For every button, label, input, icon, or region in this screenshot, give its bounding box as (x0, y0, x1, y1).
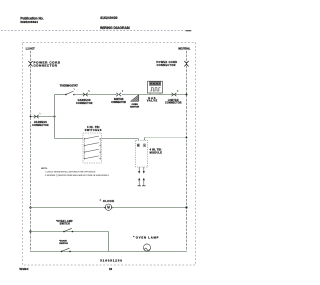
svg-text:NEUTRAL: NEUTRAL (178, 48, 190, 51)
connector ignitor harness (83, 90, 90, 96)
svg-text:CONNECTOR: CONNECTOR (157, 64, 176, 67)
electrode base left (138, 185, 141, 187)
electrode arrow up left (138, 178, 140, 181)
electrode arrow up right (143, 178, 145, 181)
cut line (1, 30, 185, 32)
wire L1 bus (30, 51, 32, 252)
svg-text:316051230: 316051230 (100, 259, 123, 263)
node clock line left (29, 206, 31, 208)
gas valve (148, 81, 163, 94)
svg-text:IGNITOR: IGNITOR (114, 99, 124, 101)
wire spark output right (143, 167, 145, 171)
svg-text:2. ASTERISK (*) DENOTES ITEMS: 2. ASTERISK (*) DENOTES ITEMS WHICH ARE … (45, 174, 110, 177)
tbi switch 2 (84, 143, 101, 146)
wire (122, 94, 187, 96)
cut line dark segment (186, 30, 192, 32)
connector power cord left (28, 61, 32, 66)
svg-text:CONNECTOR: CONNECTOR (111, 102, 126, 104)
switch door (61, 248, 71, 252)
pin mark harness connector (39, 113, 42, 114)
tbi switch box (83, 133, 102, 163)
node harness branch at bus (30, 116, 32, 118)
wire to switch box (55, 138, 84, 140)
ignitor (glowbar) (131, 95, 139, 102)
switch thermostat (65, 88, 75, 95)
svg-text:CONNECTOR: CONNECTOR (165, 103, 182, 105)
electrode stem right (143, 180, 145, 186)
svg-text:SWITCH: SWITCH (59, 243, 68, 245)
svg-text:*: * (133, 235, 134, 239)
wire lamp switch line (30, 231, 109, 233)
electrode stem left (138, 180, 140, 186)
connector power cord right (184, 61, 188, 66)
svg-text:IGNITOR: IGNITOR (130, 106, 139, 108)
label gas valve (147, 97, 158, 103)
svg-text:HARNESS: HARNESS (34, 121, 47, 124)
node clock line right (185, 206, 187, 208)
svg-text:316249400: 316249400 (100, 16, 117, 20)
svg-text:NOTE:: NOTE: (41, 168, 48, 170)
label oven ignitor (130, 104, 139, 108)
wire oven line (55, 94, 67, 96)
tbi switch 3 (84, 149, 101, 152)
wire switch left bus (84, 139, 86, 159)
connector harness (left bus) (34, 115, 39, 119)
label power cord connector left (34, 60, 61, 67)
connector ignitor right (172, 90, 179, 96)
diagram border frame (23, 43, 196, 266)
tbi module U1 (136, 140, 148, 167)
svg-text:VALVE: VALVE (147, 100, 158, 103)
spark arrow down right (143, 171, 145, 174)
node oven line to neutral (186, 94, 188, 96)
wire switch right bus (99, 139, 101, 159)
svg-text:WM94: WM94 (19, 267, 28, 271)
tbi switch 4 (84, 156, 101, 159)
svg-text:*: * (100, 199, 101, 203)
clock motor (104, 204, 112, 210)
wire clock line left (30, 207, 105, 209)
svg-text:SWITCH: SWITCH (60, 224, 70, 226)
wire (74, 94, 117, 96)
label ignitor connector (111, 99, 126, 104)
svg-text:CLOCK: CLOCK (103, 199, 115, 203)
wire bottom line (30, 251, 187, 253)
label harness connector left (32, 121, 49, 127)
svg-text:THERMOSTAT: THERMOSTAT (60, 84, 78, 88)
label harness connector mid (76, 99, 93, 105)
electrode base right (142, 185, 145, 187)
svg-text:CONNECTOR: CONNECTOR (76, 103, 93, 105)
wire spark output left (138, 167, 140, 171)
node module neutral junction (186, 137, 188, 139)
svg-text:CONNECTOR: CONNECTOR (32, 125, 49, 127)
label oven lamp switch (56, 220, 73, 226)
tbi switch 1 (84, 136, 101, 139)
label tbi module (150, 149, 163, 155)
wire module to neutral (dotted) (144, 138, 146, 141)
svg-text:HARNESS: HARNESS (78, 99, 91, 102)
svg-text:L1 HOT: L1 HOT (26, 47, 35, 50)
label power cord connector right (156, 61, 177, 67)
wire neutral bus (186, 51, 188, 252)
node lamp switch line (29, 230, 31, 232)
label tbi switches (85, 126, 102, 132)
wire box to module (102, 138, 139, 140)
note text (41, 168, 110, 177)
svg-text:OVEN LAMP: OVEN LAMP (136, 235, 159, 239)
svg-text:CONNECTOR: CONNECTOR (34, 63, 58, 67)
label ignitor connector right (165, 100, 182, 105)
svg-text:MODULE: MODULE (150, 152, 163, 155)
wire clock line right (112, 207, 187, 209)
svg-text:LIMITER: LIMITER (168, 100, 179, 102)
switch oven lamp (63, 228, 73, 232)
wire lamp switch drop (108, 232, 110, 252)
svg-text:*OVEN LAMP: *OVEN LAMP (56, 220, 73, 223)
svg-text:16: 16 (109, 267, 113, 271)
oven lamp (143, 244, 150, 251)
svg-text:WIRING DIAGRAM: WIRING DIAGRAM (100, 26, 130, 30)
label door switch (59, 241, 68, 245)
svg-text:5995208694: 5995208694 (20, 20, 38, 24)
svg-text:1. CIRCUIT SHOWN WITH ALL SWIT: 1. CIRCUIT SHOWN WITH ALL SWITCHES IN TH… (45, 170, 96, 173)
wire riser (54, 95, 56, 139)
svg-text:SWITCHES: SWITCHES (85, 129, 102, 132)
spark arrow down left (138, 171, 140, 174)
node riser junction (54, 116, 56, 118)
connector ignitor (116, 90, 123, 96)
wire harness branch (30, 116, 55, 118)
